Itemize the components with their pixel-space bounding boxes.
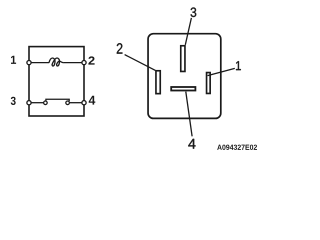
pin 2 circle [82,61,86,65]
pin label 1 [11,56,16,64]
connector body [148,34,221,119]
leader line 1 [208,68,235,75]
contact terminal circle left [44,101,48,105]
terminal slot 1 (right) [207,73,211,94]
relay outline box [29,47,84,116]
pin label 4 [89,96,96,105]
wire coil to pin2 [63,62,82,64]
pin label 2 [88,56,94,64]
terminal label 2 [117,43,123,53]
wire pin3 to contact [31,102,44,104]
leader line 2 [125,55,156,71]
contact switch bar [46,99,69,101]
terminal label 3 [191,8,197,17]
contact terminal circle right [66,101,70,105]
wire pin1 to coil [31,62,50,64]
terminal slot 2 (left) [156,71,160,94]
wire contact to pin4 [69,102,82,104]
leader line 4 [186,92,192,137]
pin label 3 [11,97,16,105]
pin 1 circle [27,61,31,65]
pin 4 circle [82,101,86,105]
terminal label 4 [188,139,195,149]
terminal slot 4 (bottom) [171,87,195,91]
terminal slot 3 (top) [181,46,185,72]
terminal label 1 [236,61,241,70]
figure ID A094327E02 [217,145,257,150]
pin 3 circle [27,101,31,105]
leader line 3 [185,18,191,45]
coil [49,58,63,66]
